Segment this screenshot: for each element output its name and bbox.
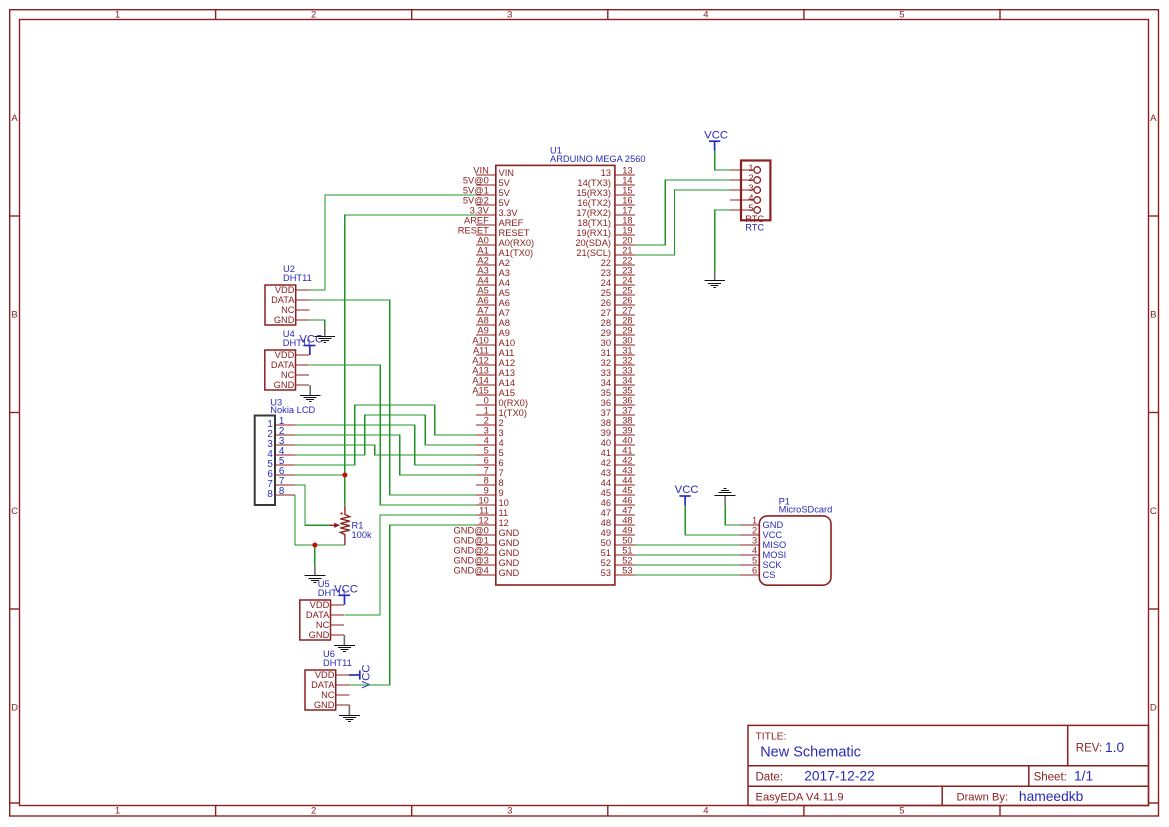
svg-text:A13: A13 xyxy=(499,368,516,378)
svg-text:B: B xyxy=(1150,310,1156,321)
svg-text:3.3V: 3.3V xyxy=(499,208,519,218)
svg-text:1: 1 xyxy=(752,516,757,526)
svg-text:GND: GND xyxy=(314,700,335,710)
svg-text:A14: A14 xyxy=(472,376,489,386)
svg-text:GND@1: GND@1 xyxy=(454,536,489,546)
svg-text:A13: A13 xyxy=(472,366,489,376)
svg-text:13: 13 xyxy=(601,168,611,178)
svg-text:7: 7 xyxy=(499,468,504,478)
svg-text:26: 26 xyxy=(622,296,632,306)
svg-text:1: 1 xyxy=(115,10,120,21)
svg-text:A15: A15 xyxy=(472,386,489,396)
svg-text:44: 44 xyxy=(601,478,611,488)
svg-text:45: 45 xyxy=(601,488,611,498)
svg-text:32: 32 xyxy=(601,358,611,368)
svg-text:3: 3 xyxy=(507,806,512,817)
svg-text:9: 9 xyxy=(499,488,504,498)
svg-text:26: 26 xyxy=(601,298,611,308)
svg-text:1: 1 xyxy=(484,406,489,416)
svg-text:A10: A10 xyxy=(499,338,516,348)
svg-text:5V: 5V xyxy=(499,178,511,188)
svg-text:45: 45 xyxy=(622,486,632,496)
svg-text:DATA: DATA xyxy=(271,295,295,305)
svg-text:31: 31 xyxy=(622,346,632,356)
svg-text:3.3V: 3.3V xyxy=(470,206,490,216)
svg-text:A15: A15 xyxy=(499,388,516,398)
svg-text:NC: NC xyxy=(281,370,295,380)
svg-text:18(TX1): 18(TX1) xyxy=(577,218,611,228)
svg-text:A8: A8 xyxy=(499,318,510,328)
svg-text:A: A xyxy=(1150,113,1157,124)
svg-text:DATA: DATA xyxy=(306,610,330,620)
svg-text:VDD: VDD xyxy=(315,670,335,680)
svg-text:33: 33 xyxy=(622,366,632,376)
svg-text:VCC: VCC xyxy=(360,665,372,689)
svg-text:27: 27 xyxy=(622,306,632,316)
svg-text:8: 8 xyxy=(484,476,489,486)
svg-text:15(RX3): 15(RX3) xyxy=(576,188,611,198)
svg-text:4: 4 xyxy=(752,546,757,556)
svg-text:8: 8 xyxy=(279,486,285,497)
svg-text:20(SDA): 20(SDA) xyxy=(575,238,611,248)
svg-text:3: 3 xyxy=(484,426,489,436)
svg-text:25: 25 xyxy=(622,286,632,296)
svg-text:2: 2 xyxy=(311,10,316,21)
svg-text:A4: A4 xyxy=(477,276,488,286)
svg-text:48: 48 xyxy=(601,518,611,528)
svg-text:15: 15 xyxy=(622,186,632,196)
svg-text:New Schematic: New Schematic xyxy=(760,745,861,761)
svg-text:GND: GND xyxy=(499,528,520,538)
svg-text:50: 50 xyxy=(601,538,611,548)
svg-text:1.0: 1.0 xyxy=(1105,740,1125,755)
svg-text:35: 35 xyxy=(622,386,632,396)
svg-text:17: 17 xyxy=(622,206,632,216)
svg-text:42: 42 xyxy=(601,458,611,468)
svg-text:VCC: VCC xyxy=(763,530,783,540)
svg-text:53: 53 xyxy=(601,568,611,578)
svg-text:VIN: VIN xyxy=(473,166,489,176)
svg-text:4: 4 xyxy=(499,438,504,448)
svg-text:3: 3 xyxy=(752,536,757,546)
svg-text:20: 20 xyxy=(622,236,632,246)
svg-text:GND@2: GND@2 xyxy=(454,546,489,556)
svg-text:0: 0 xyxy=(484,396,489,406)
svg-text:DATA: DATA xyxy=(311,680,335,690)
svg-text:A11: A11 xyxy=(473,346,489,356)
svg-text:5: 5 xyxy=(499,448,504,458)
svg-text:4: 4 xyxy=(748,193,753,203)
svg-text:A9: A9 xyxy=(499,328,510,338)
svg-text:GND: GND xyxy=(274,315,295,325)
svg-text:VDD: VDD xyxy=(275,350,295,360)
svg-text:50: 50 xyxy=(622,536,632,546)
svg-text:5: 5 xyxy=(899,806,904,817)
svg-text:VDD: VDD xyxy=(275,285,295,295)
svg-text:19: 19 xyxy=(622,226,632,236)
svg-text:34: 34 xyxy=(622,376,632,386)
svg-text:A11: A11 xyxy=(499,348,515,358)
svg-text:16: 16 xyxy=(622,196,632,206)
svg-text:41: 41 xyxy=(622,446,632,456)
svg-text:25: 25 xyxy=(601,288,611,298)
svg-text:28: 28 xyxy=(601,318,611,328)
svg-text:D: D xyxy=(11,703,18,714)
svg-text:27: 27 xyxy=(601,308,611,318)
svg-text:21(SCL): 21(SCL) xyxy=(576,248,611,258)
svg-text:A10: A10 xyxy=(472,336,489,346)
svg-text:22: 22 xyxy=(601,258,611,268)
svg-text:Nokia LCD: Nokia LCD xyxy=(270,405,315,415)
svg-text:53: 53 xyxy=(622,566,632,576)
svg-text:49: 49 xyxy=(601,528,611,538)
svg-text:MOSI: MOSI xyxy=(763,550,787,560)
svg-text:EasyEDA V4.11.9: EasyEDA V4.11.9 xyxy=(756,792,844,804)
svg-text:12: 12 xyxy=(478,516,488,526)
svg-text:5: 5 xyxy=(899,10,904,21)
svg-text:5V@2: 5V@2 xyxy=(463,196,489,206)
svg-text:A0(RX0): A0(RX0) xyxy=(499,238,535,248)
svg-text:3: 3 xyxy=(507,10,512,21)
svg-text:RTC: RTC xyxy=(745,222,764,232)
svg-text:29: 29 xyxy=(601,328,611,338)
svg-text:9: 9 xyxy=(484,486,489,496)
svg-text:2: 2 xyxy=(752,526,757,536)
svg-text:GND: GND xyxy=(499,558,520,568)
svg-text:43: 43 xyxy=(622,466,632,476)
svg-text:A5: A5 xyxy=(499,288,510,298)
svg-text:30: 30 xyxy=(601,338,611,348)
svg-text:D: D xyxy=(1150,703,1157,714)
svg-text:NC: NC xyxy=(321,690,335,700)
svg-text:23: 23 xyxy=(622,266,632,276)
svg-text:TITLE:: TITLE: xyxy=(756,731,787,742)
svg-text:NC: NC xyxy=(316,620,330,630)
svg-text:49: 49 xyxy=(622,526,632,536)
svg-text:14: 14 xyxy=(622,176,632,186)
svg-text:GND: GND xyxy=(763,520,784,530)
svg-text:DHT11: DHT11 xyxy=(283,273,312,283)
svg-text:A2: A2 xyxy=(499,258,510,268)
svg-text:12: 12 xyxy=(499,518,509,528)
svg-text:2: 2 xyxy=(311,806,316,817)
svg-text:DHT11: DHT11 xyxy=(318,588,347,598)
svg-text:19(RX1): 19(RX1) xyxy=(576,228,611,238)
svg-text:37: 37 xyxy=(601,408,611,418)
svg-text:24: 24 xyxy=(601,278,611,288)
svg-text:17(RX2): 17(RX2) xyxy=(576,208,611,218)
svg-text:ARDUINO MEGA 2560: ARDUINO MEGA 2560 xyxy=(550,154,646,164)
svg-text:36: 36 xyxy=(622,396,632,406)
svg-text:47: 47 xyxy=(601,508,611,518)
svg-text:24: 24 xyxy=(622,276,632,286)
svg-text:48: 48 xyxy=(622,516,632,526)
svg-text:DHT11: DHT11 xyxy=(323,658,352,668)
svg-text:GND: GND xyxy=(499,548,520,558)
svg-text:A5: A5 xyxy=(477,286,488,296)
svg-text:GND@0: GND@0 xyxy=(454,526,489,536)
svg-text:51: 51 xyxy=(622,546,632,556)
svg-text:0(RX0): 0(RX0) xyxy=(499,398,528,408)
svg-text:40: 40 xyxy=(622,436,632,446)
svg-text:A6: A6 xyxy=(499,298,510,308)
svg-text:A9: A9 xyxy=(477,326,488,336)
svg-text:A1: A1 xyxy=(477,246,488,256)
svg-text:32: 32 xyxy=(622,356,632,366)
svg-text:18: 18 xyxy=(622,216,632,226)
svg-text:VCC: VCC xyxy=(704,129,728,141)
svg-text:21: 21 xyxy=(622,246,632,256)
svg-text:39: 39 xyxy=(601,428,611,438)
svg-text:2017-12-22: 2017-12-22 xyxy=(804,769,875,784)
svg-text:100k: 100k xyxy=(352,530,373,540)
svg-text:VIN: VIN xyxy=(499,168,515,178)
svg-text:52: 52 xyxy=(622,556,632,566)
svg-text:33: 33 xyxy=(601,368,611,378)
svg-text:A3: A3 xyxy=(499,268,510,278)
svg-text:52: 52 xyxy=(601,558,611,568)
svg-text:AREF: AREF xyxy=(499,218,524,228)
svg-text:4: 4 xyxy=(484,436,489,446)
svg-text:6: 6 xyxy=(752,566,757,576)
svg-text:2: 2 xyxy=(748,173,753,183)
svg-text:31: 31 xyxy=(601,348,611,358)
svg-text:11: 11 xyxy=(479,506,489,516)
svg-text:6: 6 xyxy=(484,456,489,466)
svg-text:1: 1 xyxy=(748,163,753,173)
svg-text:A6: A6 xyxy=(477,296,488,306)
svg-text:A4: A4 xyxy=(499,278,510,288)
svg-text:8: 8 xyxy=(267,489,273,500)
svg-text:3: 3 xyxy=(499,428,504,438)
svg-text:46: 46 xyxy=(601,498,611,508)
svg-text:CS: CS xyxy=(763,570,776,580)
svg-text:R1: R1 xyxy=(352,521,364,531)
svg-text:DHT11: DHT11 xyxy=(283,338,312,348)
svg-text:38: 38 xyxy=(622,416,632,426)
svg-text:RESET: RESET xyxy=(458,226,489,236)
svg-text:C: C xyxy=(1150,506,1157,517)
svg-text:11: 11 xyxy=(499,508,509,518)
svg-text:B: B xyxy=(11,310,17,321)
svg-text:30: 30 xyxy=(622,336,632,346)
svg-text:51: 51 xyxy=(601,548,611,558)
svg-text:5V: 5V xyxy=(499,198,511,208)
svg-text:A7: A7 xyxy=(499,308,510,318)
svg-text:C: C xyxy=(11,506,18,517)
svg-text:5: 5 xyxy=(748,203,753,213)
svg-text:40: 40 xyxy=(601,438,611,448)
svg-text:GND: GND xyxy=(499,538,520,548)
svg-text:5V@0: 5V@0 xyxy=(463,176,489,186)
svg-text:GND: GND xyxy=(499,568,520,578)
svg-text:REV:: REV: xyxy=(1076,743,1102,755)
svg-text:29: 29 xyxy=(622,326,632,336)
svg-text:5: 5 xyxy=(484,446,489,456)
svg-text:A12: A12 xyxy=(472,356,489,366)
svg-text:AREF: AREF xyxy=(464,216,489,226)
svg-text:GND@4: GND@4 xyxy=(454,566,489,576)
svg-text:A14: A14 xyxy=(499,378,516,388)
svg-text:A: A xyxy=(11,113,18,124)
svg-text:34: 34 xyxy=(601,378,611,388)
svg-text:13: 13 xyxy=(622,166,632,176)
svg-text:35: 35 xyxy=(601,388,611,398)
svg-text:SCK: SCK xyxy=(763,560,783,570)
svg-text:NC: NC xyxy=(281,305,295,315)
svg-text:42: 42 xyxy=(622,456,632,466)
svg-text:A8: A8 xyxy=(477,316,488,326)
svg-text:28: 28 xyxy=(622,316,632,326)
svg-text:1/1: 1/1 xyxy=(1074,769,1093,784)
svg-text:5V: 5V xyxy=(499,188,511,198)
svg-text:Date:: Date: xyxy=(756,772,784,784)
svg-text:4: 4 xyxy=(703,10,708,21)
svg-text:8: 8 xyxy=(499,478,504,488)
svg-text:RESET: RESET xyxy=(499,228,530,238)
svg-text:43: 43 xyxy=(601,468,611,478)
svg-text:10: 10 xyxy=(478,496,488,506)
svg-text:MicroSDcard: MicroSDcard xyxy=(779,504,833,514)
svg-text:Sheet:: Sheet: xyxy=(1034,772,1067,784)
svg-text:41: 41 xyxy=(601,448,611,458)
svg-text:46: 46 xyxy=(622,496,632,506)
svg-text:VCC: VCC xyxy=(675,484,699,496)
svg-text:DATA: DATA xyxy=(271,360,295,370)
svg-text:A3: A3 xyxy=(477,266,488,276)
svg-text:1(TX0): 1(TX0) xyxy=(499,408,527,418)
svg-text:23: 23 xyxy=(601,268,611,278)
svg-text:VDD: VDD xyxy=(310,600,330,610)
svg-text:GND: GND xyxy=(274,380,295,390)
svg-text:A0: A0 xyxy=(477,236,488,246)
svg-text:5V@1: 5V@1 xyxy=(463,186,489,196)
svg-text:A7: A7 xyxy=(477,306,488,316)
svg-text:A2: A2 xyxy=(477,256,488,266)
svg-text:GND: GND xyxy=(309,630,330,640)
svg-text:5: 5 xyxy=(752,556,757,566)
svg-text:2: 2 xyxy=(499,418,504,428)
svg-text:MISO: MISO xyxy=(763,540,787,550)
svg-text:4: 4 xyxy=(703,806,708,817)
svg-text:2: 2 xyxy=(484,416,489,426)
svg-text:22: 22 xyxy=(622,256,632,266)
svg-text:Drawn By:: Drawn By: xyxy=(957,792,1009,804)
svg-text:hameedkb: hameedkb xyxy=(1019,789,1084,804)
svg-text:10: 10 xyxy=(499,498,509,508)
svg-text:A1(TX0): A1(TX0) xyxy=(499,248,534,258)
svg-text:7: 7 xyxy=(484,466,489,476)
svg-text:44: 44 xyxy=(622,476,632,486)
svg-text:37: 37 xyxy=(622,406,632,416)
svg-text:47: 47 xyxy=(622,506,632,516)
svg-text:38: 38 xyxy=(601,418,611,428)
svg-text:39: 39 xyxy=(622,426,632,436)
svg-text:6: 6 xyxy=(499,458,504,468)
svg-text:16(TX2): 16(TX2) xyxy=(577,198,611,208)
svg-text:36: 36 xyxy=(601,398,611,408)
svg-text:A12: A12 xyxy=(499,358,516,368)
svg-text:3: 3 xyxy=(748,183,753,193)
svg-text:GND@3: GND@3 xyxy=(454,556,489,566)
svg-text:14(TX3): 14(TX3) xyxy=(577,178,611,188)
svg-text:1: 1 xyxy=(115,806,120,817)
